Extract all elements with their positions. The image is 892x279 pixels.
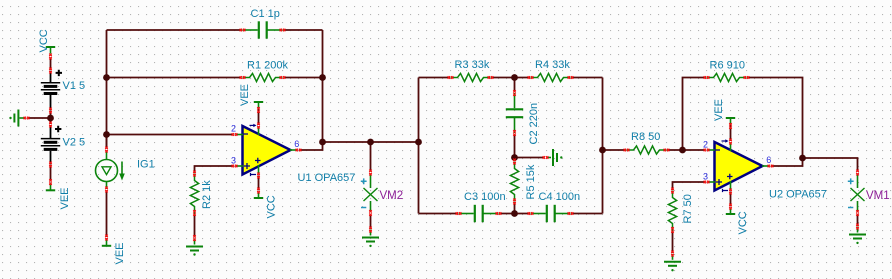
wire R8 row <box>603 149 627 151</box>
wire middle network right vertical <box>602 78 604 214</box>
svg-text:C2 220n: C2 220n <box>528 103 540 145</box>
wire R1 row <box>107 77 323 79</box>
svg-text:2: 2 <box>703 140 708 150</box>
power symbol VEE below V2 <box>46 184 55 191</box>
wire R7 to ground <box>672 231 674 254</box>
power symbol VEE above U2 <box>726 118 735 125</box>
power symbol VCC below U1 <box>254 192 263 199</box>
junction VM2 tap <box>367 139 374 146</box>
wire U2 VCC supply <box>730 192 732 207</box>
ground below VM1 <box>849 227 866 239</box>
svg-text:R8 50: R8 50 <box>631 131 660 143</box>
svg-text:VEE: VEE <box>239 84 251 106</box>
junction battery midpoint <box>47 115 54 122</box>
svg-text:VCC: VCC <box>38 29 50 52</box>
junction left bus / pin2 row <box>103 131 110 138</box>
svg-text:R1 200k: R1 200k <box>247 60 288 72</box>
wire bus to IG1 <box>106 135 108 149</box>
wire VCC jumper to V1 <box>50 58 52 70</box>
wire U1 output to middle network <box>299 142 419 150</box>
op-amp U1 <box>237 124 298 176</box>
wire R5 bottom lead <box>514 202 516 214</box>
capacitor C2 220n <box>506 93 523 133</box>
svg-text:R7 50: R7 50 <box>682 194 694 223</box>
svg-text:R2 1k: R2 1k <box>201 180 213 209</box>
battery V2 <box>41 125 60 165</box>
junction R5 bottom <box>511 210 518 217</box>
svg-text:U1 OPA657: U1 OPA657 <box>298 172 356 184</box>
ground below VM2 <box>362 230 379 242</box>
voltmeter VM1 <box>851 175 865 212</box>
wire IG1 to VEE jumper <box>106 191 108 238</box>
wire middle network top row <box>419 77 603 79</box>
resistor R8 50 <box>627 146 667 154</box>
capacitor C4 100n <box>531 205 571 222</box>
junction U1 output jog <box>319 139 326 146</box>
svg-text:V1 5: V1 5 <box>63 80 86 92</box>
resistor R6 910 <box>707 73 747 81</box>
resistor R2 1k <box>190 174 198 214</box>
svg-text:VM2: VM2 <box>380 190 404 202</box>
svg-text:VEE: VEE <box>59 187 71 209</box>
power symbol VEE above U1 <box>254 102 263 109</box>
ground left of batteries <box>14 110 25 127</box>
svg-text:VM1: VM1 <box>866 190 890 202</box>
ground below R2 <box>186 239 203 251</box>
power symbol VCC top <box>46 47 55 54</box>
svg-text:2: 2 <box>231 124 236 134</box>
capacitor C1 1p <box>243 21 283 38</box>
current source IG1 <box>96 151 123 189</box>
wire mid ground stub <box>515 157 545 159</box>
wire middle network left vertical <box>418 78 420 214</box>
resistor R7 50 <box>668 191 676 231</box>
resistor R3 33k <box>451 73 491 81</box>
wire C1 top feedback <box>107 29 323 31</box>
junction left bus / R1 row <box>103 74 110 81</box>
svg-text:C3 100n: C3 100n <box>464 191 506 203</box>
svg-text:VCC: VCC <box>266 195 278 218</box>
wire C2 branch <box>514 78 516 158</box>
svg-text:V2 5: V2 5 <box>63 137 86 149</box>
wire U2 feedback loop <box>683 78 707 151</box>
svg-text:IG1: IG1 <box>137 159 155 171</box>
svg-text:R6 910: R6 910 <box>710 60 745 72</box>
wire VM2 to ground <box>370 214 372 229</box>
wire VM1 to ground <box>857 214 859 226</box>
svg-text:R5 15k: R5 15k <box>525 164 537 199</box>
svg-text:VEE: VEE <box>713 99 725 121</box>
svg-text:C1 1p: C1 1p <box>251 8 280 20</box>
svg-text:3: 3 <box>231 156 236 166</box>
pin end markers <box>24 29 859 257</box>
junction feedback right / R1 row <box>319 74 326 81</box>
wire middle network bottom row <box>419 213 603 215</box>
wire U1 VCC supply <box>258 176 260 191</box>
resistor R1 200k <box>243 73 283 81</box>
wire V1 to junction <box>50 111 52 119</box>
op-amp U2 <box>709 139 770 192</box>
svg-text:VCC: VCC <box>737 211 749 234</box>
junction filter right / R8 <box>599 147 606 154</box>
junction filter left <box>415 139 422 146</box>
junction U2 feedback tap <box>679 147 686 154</box>
ground below R7 <box>664 254 681 266</box>
svg-text:U2 OPA657: U2 OPA657 <box>769 189 827 201</box>
power symbol VCC below U2 <box>726 208 735 215</box>
svg-text:3: 3 <box>703 172 708 182</box>
wire U1 VEE supply <box>258 109 260 126</box>
wire right vertical of feedback loop <box>322 30 324 142</box>
wire left vertical bus <box>106 30 108 148</box>
wire junction to V2 <box>50 118 52 124</box>
capacitor C3 100n <box>459 205 499 222</box>
battery V1 <box>41 71 60 110</box>
wire U1 pin3 input <box>195 166 233 173</box>
svg-text:C4 100n: C4 100n <box>539 191 581 203</box>
resistor R4 33k <box>531 73 571 81</box>
junction U2 output jog <box>799 155 806 162</box>
junction C2/R5/ground <box>511 154 518 161</box>
wire output to VM1 <box>803 158 858 171</box>
wire V2 to VEE jumper <box>50 165 52 182</box>
svg-text:6: 6 <box>766 155 771 165</box>
junction C2 top <box>511 74 518 81</box>
resistor R5 15k <box>510 162 518 202</box>
wire ground to junction <box>28 117 51 119</box>
power symbol VEE below IG1 <box>102 239 111 246</box>
svg-text:VEE: VEE <box>114 242 126 264</box>
ground right of C2 <box>547 149 558 166</box>
wire R2 to ground <box>194 214 196 238</box>
wire U1 pin2 input <box>107 134 233 136</box>
wire U2 output <box>771 158 803 166</box>
voltmeter VM2 <box>364 175 378 212</box>
wire VM2 tap <box>370 142 372 171</box>
svg-text:6: 6 <box>294 139 299 149</box>
svg-text:R4 33k: R4 33k <box>535 59 570 71</box>
svg-text:R3 33k: R3 33k <box>455 59 490 71</box>
wire U2 pin3 input <box>673 182 706 190</box>
wire U2 VEE supply <box>730 125 732 142</box>
